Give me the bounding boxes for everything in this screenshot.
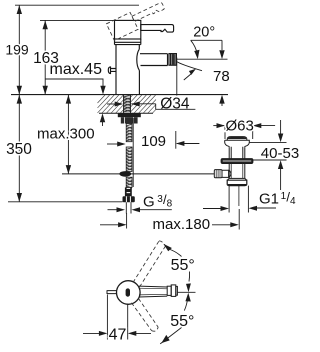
node arrow on slant (up-right) xyxy=(189,69,196,75)
FAUCET BODY GROUP xyxy=(108,20,176,94)
washer below deck xyxy=(118,113,141,117)
20 deg construct xyxy=(177,40,228,106)
svg-text:40-53: 40-53 xyxy=(261,145,299,162)
node arrow deck-bottom (up) xyxy=(100,113,105,122)
deck hatch xyxy=(98,95,157,113)
svg-text:max.45: max.45 xyxy=(50,61,103,78)
dim 47 xyxy=(83,295,151,340)
svg-text:199: 199 xyxy=(5,41,29,57)
svg-text:47: 47 xyxy=(109,327,127,344)
node arrow max300 bottom (down) xyxy=(66,165,71,174)
DRAIN GROUP xyxy=(214,137,253,213)
drain body upper xyxy=(229,147,245,159)
hose end nut G3/8 xyxy=(123,196,135,202)
dim G3/8 arrows xyxy=(108,209,172,211)
top view body circle xyxy=(117,281,141,305)
aerator xyxy=(169,54,176,66)
faucet body outline xyxy=(116,45,139,95)
tailpiece center rod line xyxy=(238,186,240,206)
drain ring xyxy=(221,159,253,164)
hose end ferrule xyxy=(125,187,132,196)
node arrow 20deg-left (down) xyxy=(194,50,199,59)
dim 55 bottom xyxy=(160,296,188,344)
node arrow 199 top (up) xyxy=(17,5,22,14)
node dim-199-350 vertical line xyxy=(18,5,20,202)
top view centerline ext xyxy=(178,291,196,293)
node arrow max45 right (down) xyxy=(100,86,105,95)
wire 20deg left leader xyxy=(191,40,198,54)
hoses cross-hatched column upper xyxy=(126,124,132,188)
pop-up rod vertical xyxy=(132,118,134,187)
handle cap U-handle solid xyxy=(115,20,141,39)
node arrow 78 bottom (up) xyxy=(219,95,224,104)
svg-text:Ø63: Ø63 xyxy=(226,118,254,135)
handle dashed rotated xyxy=(106,0,167,41)
spout ball back xyxy=(137,49,140,70)
top view pop-up pin xyxy=(107,290,117,294)
top view lever bar xyxy=(139,285,177,297)
deck bottom line xyxy=(99,112,153,114)
thread tail xyxy=(125,202,127,213)
svg-text:55°: 55° xyxy=(171,257,195,274)
dim G1 1/4 arrows xyxy=(203,207,276,210)
wire 78 bottom tail xyxy=(221,97,223,106)
clevis knob knurled xyxy=(214,170,222,178)
drain flange xyxy=(225,140,250,147)
node arrow 350 bottom (down) xyxy=(17,193,22,202)
tailpiece tube xyxy=(229,186,248,213)
svg-text:max.300: max.300 xyxy=(37,126,95,143)
wire cap-top reference line 163 xyxy=(40,19,115,21)
wire 20deg right leader / 78 top xyxy=(221,40,223,50)
body bottom / nut xyxy=(229,177,245,179)
wire deck top line xyxy=(11,94,228,96)
wire max45 leader xyxy=(45,79,103,91)
dashed lever down 55 xyxy=(132,299,159,332)
dim 109 xyxy=(107,131,199,149)
spout top xyxy=(140,53,168,55)
drain plug dome xyxy=(227,137,247,141)
node arrow 20deg-right/78-top (down) xyxy=(219,50,224,59)
pop-up knob left xyxy=(108,67,116,74)
pop-up rod horizontal xyxy=(62,173,215,175)
svg-text:109: 109 xyxy=(141,133,166,150)
dim Ø34 xyxy=(107,104,195,110)
shank cross-hatched xyxy=(124,95,131,114)
clevis block xyxy=(222,170,229,177)
top view center slot xyxy=(126,288,130,296)
wire top reference line 199 xyxy=(15,4,139,6)
handle cap base lines xyxy=(115,41,141,43)
svg-text:78: 78 xyxy=(213,68,230,85)
svg-text:55°: 55° xyxy=(170,313,194,330)
svg-text:350: 350 xyxy=(6,141,32,158)
node arrow 199 bottom (down) xyxy=(17,86,22,95)
wire spout axis ext xyxy=(177,58,228,60)
node arrow 163 bottom (down) xyxy=(43,86,48,95)
node dim-max300 vertical line xyxy=(67,95,69,174)
svg-text:20°: 20° xyxy=(193,24,215,40)
node dim-163 vertical line xyxy=(44,21,46,95)
dim Ø63 xyxy=(213,126,275,139)
node arrow 163 top (up) xyxy=(43,21,48,30)
wire 350 bottom ref line xyxy=(8,201,123,203)
rod clamp at hoses xyxy=(119,171,131,177)
lever solid xyxy=(141,25,174,32)
wire deck-bottom up arrow tail xyxy=(102,117,104,126)
dim 40-53 xyxy=(249,120,286,190)
svg-text:Ø34: Ø34 xyxy=(160,95,190,112)
dim max.180 xyxy=(100,209,239,230)
svg-text:max.180: max.180 xyxy=(153,216,211,233)
node arrow 350 top (up) xyxy=(17,95,22,104)
wire 20deg slanted line xyxy=(177,62,203,71)
mounting nut xyxy=(121,117,138,123)
wire 20deg small arrow tail xyxy=(184,74,192,81)
wire 20deg underline xyxy=(191,39,222,41)
drain body lower xyxy=(229,163,245,178)
dim 55 top xyxy=(169,249,190,282)
spout end xyxy=(167,54,169,66)
wire aerator ext vertical xyxy=(176,58,178,96)
node arrow max300 top (up) xyxy=(66,95,71,104)
spout bottom xyxy=(141,65,168,67)
dashed lever up 55 xyxy=(133,241,166,287)
